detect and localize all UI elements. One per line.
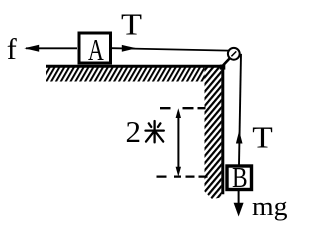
table outline: right edge wall line — [221, 65, 224, 194]
dashed line bottom — [157, 175, 220, 177]
wire rope pulley to B — [239, 54, 241, 165]
svg-text:A: A — [88, 32, 104, 67]
svg-text:T: T — [252, 119, 273, 154]
tension T arrowhead (right of A) — [122, 45, 137, 52]
dashed line top — [160, 107, 207, 109]
pulley axle mark — [231, 51, 236, 56]
wire rope A to pulley — [112, 48, 229, 50]
wall hatching — [205, 68, 222, 200]
tension T arrowhead (above B) — [236, 131, 243, 144]
svg-text:2: 2 — [126, 114, 142, 149]
table outline: top surface — [46, 65, 223, 68]
friction arrow f — [26, 47, 77, 49]
pulley — [228, 48, 240, 60]
weight arrow mg — [238, 190, 240, 205]
measurement arrow (2 m) — [177, 112, 179, 172]
label 米 (drawn, CJK glyph unavailable) — [146, 121, 164, 142]
block B — [227, 166, 252, 190]
svg-text:f: f — [7, 33, 17, 66]
pulley bracket diagonal — [222, 59, 230, 67]
block A — [79, 33, 111, 63]
svg-text:T: T — [121, 6, 142, 41]
corner junction blob — [220, 65, 226, 70]
table top hatching — [46, 68, 205, 82]
svg-text:mg: mg — [252, 192, 288, 221]
svg-text:B: B — [232, 163, 248, 194]
